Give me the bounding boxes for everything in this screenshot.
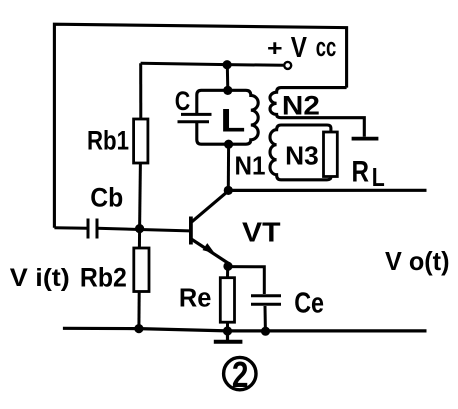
wire: inner Vcc rail from Rb1 top to Vcc terminal: [141, 63, 284, 65]
svg-text:R: R: [352, 155, 370, 188]
node: Ce bottom junction: [261, 327, 270, 336]
wire: tank bottom to collector node: [227, 144, 230, 190]
svg-text:V o(t): V o(t): [385, 246, 450, 276]
wire: Vcc rail down to tank top: [226, 65, 230, 91]
transistor VT: emitter arrowhead: [203, 243, 215, 253]
wire: Rb2 bottom lead: [137, 292, 140, 329]
node: collector junction: [224, 186, 233, 195]
transistor VT: base bar: [189, 217, 193, 245]
svg-text:N3: N3: [285, 141, 319, 171]
wire: emitter to Ce top: [228, 267, 264, 294]
svg-text:V i(t): V i(t): [10, 264, 70, 292]
inductor L (tank outline with coil bumps): [197, 90, 258, 144]
wire: Ce bottom lead: [264, 306, 267, 331]
node: Rb2 bottom junction: [134, 324, 143, 333]
wire: Rb2 top lead: [138, 229, 141, 248]
svg-text:Cb: Cb: [90, 183, 123, 213]
svg-text:L: L: [220, 102, 245, 138]
wire: left vertical to Cb left plate: [54, 226, 88, 229]
svg-text:L: L: [372, 162, 385, 192]
resistor Rb2 body: [134, 248, 149, 292]
svg-text:Re: Re: [179, 285, 212, 313]
transistor VT: emitter stroke: [192, 239, 228, 266]
svg-text:cc: cc: [316, 32, 337, 62]
figure number: circled 2: [224, 354, 256, 395]
wire: outer feedback loop (left vertical, top wire, right vertical): [54, 24, 346, 228]
svg-text:Rb1: Rb1: [87, 126, 129, 156]
wire: Cb right plate to base node and to transistor base: [97, 228, 189, 231]
capacitor Ce plates: [251, 296, 281, 305]
svg-text:V: V: [291, 32, 308, 64]
node: emitter junction: [223, 262, 232, 271]
svg-text:C: C: [175, 86, 191, 116]
wire: Rb1 top lead: [139, 63, 142, 119]
wire: Rb1 bottom lead: [138, 163, 142, 229]
wire: Re bottom lead: [226, 322, 229, 331]
svg-text:N1: N1: [235, 151, 266, 181]
node: Re bottom junction: [223, 326, 232, 335]
resistor RL body: [324, 132, 338, 177]
terminal +Vcc open circle: [284, 62, 291, 69]
svg-text:N2: N2: [282, 90, 320, 120]
node: base junction: [135, 224, 144, 233]
ground (emitter leg): [214, 331, 243, 342]
node: tank bottom junction: [224, 140, 233, 149]
transistor VT: collector stroke: [192, 191, 229, 222]
capacitor C plates: [178, 114, 212, 121]
node: junction dot on Vcc rail: [223, 60, 232, 69]
resistor Re body: [220, 278, 234, 323]
resistor Rb1 body: [134, 119, 148, 163]
svg-text:Rb2: Rb2: [80, 263, 127, 293]
label +Vcc: [267, 32, 336, 64]
winding N2 (coil with leads to top-right and ground): [270, 88, 364, 137]
wire: collector output rail: [228, 189, 426, 192]
ground (N2 winding return): [352, 137, 379, 141]
wire: bottom ground rail: [63, 328, 427, 331]
label RL: [352, 155, 385, 192]
svg-text:Ce: Ce: [294, 288, 324, 320]
capacitor Cb plates: [88, 219, 97, 239]
svg-text:+: +: [267, 35, 283, 61]
winding N3 (coil looped with RL): [270, 125, 331, 180]
svg-text:2: 2: [232, 354, 249, 395]
svg-text:VT: VT: [242, 216, 281, 247]
node: tank top junction: [223, 86, 232, 95]
wire: Re top lead: [226, 266, 229, 278]
